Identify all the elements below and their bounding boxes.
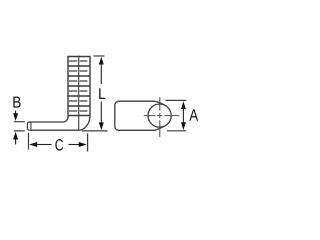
tongue outline (end view) [115, 101, 165, 130]
dimension B top arrow (pointing down) [13, 111, 18, 122]
dimension C left arrow (pointing left) [29, 142, 51, 147]
dimension C label [55, 139, 63, 151]
dimension C extension lines [29, 133, 88, 152]
horizontal centerline [144, 115, 180, 117]
barrel serration full lines [68, 66, 90, 106]
tab end tangent line [30, 122, 32, 130]
dimension A up arrow [181, 101, 186, 130]
barrel bottom edge [68, 115, 90, 117]
dimension B label [13, 97, 20, 108]
dimension L / part bottom extension line [82, 130, 108, 132]
dimension L up arrow [99, 57, 104, 84]
dimension A label [189, 109, 198, 120]
barrel outline (side view) [68, 57, 90, 116]
dimension B bottom arrow (pointing up) [13, 132, 18, 145]
dimension L label [99, 88, 105, 99]
barrel serration dashes [69, 61, 87, 111]
tab bottom edge + outer bend arc [31, 116, 90, 131]
dimension L top extension line [94, 55, 105, 57]
dimension C right arrow (pointing right) [69, 142, 87, 147]
barrel seam line [78, 56, 80, 130]
hole circle [148, 104, 171, 127]
inner bend arc + tab top edge [31, 116, 68, 123]
dimension B extension lines [14, 122, 25, 131]
dimension L down arrow [99, 102, 104, 131]
tab left rounded end cap [27, 122, 31, 130]
vertical centerline [159, 97, 161, 137]
dimension A extension lines [166, 100, 187, 130]
